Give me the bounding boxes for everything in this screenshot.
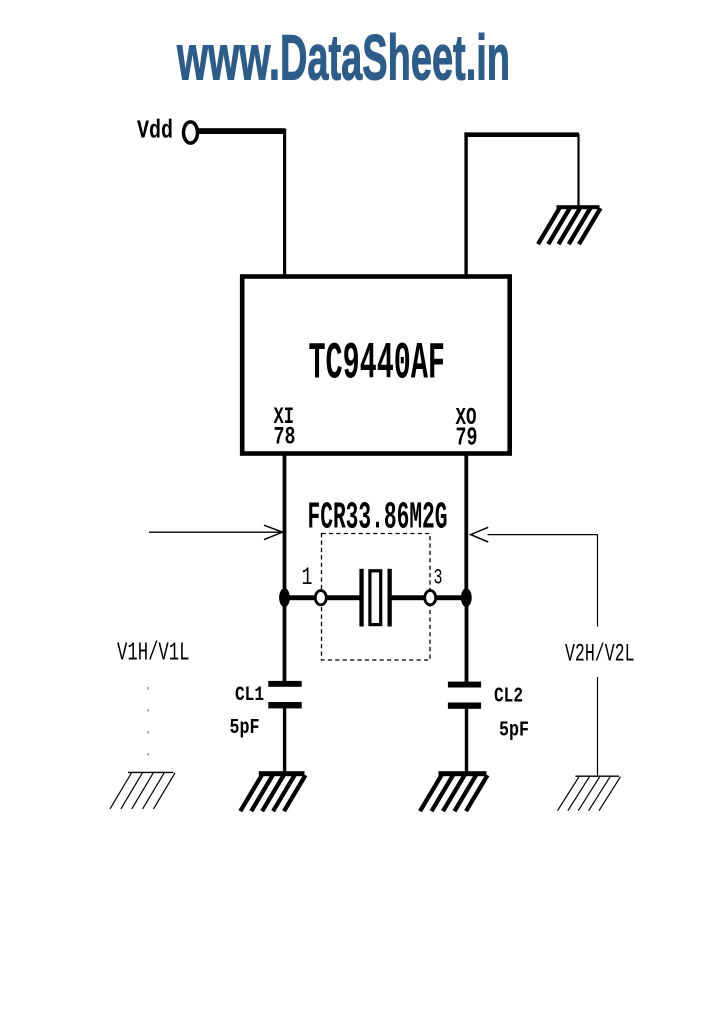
ground (top right) bbox=[557, 205, 600, 209]
wire V2 probe vertical upper bbox=[597, 535, 599, 627]
svg-text:79: 79 bbox=[456, 422, 478, 452]
svg-text:1: 1 bbox=[302, 564, 313, 592]
svg-text:CL1: CL1 bbox=[235, 683, 264, 706]
wire XO pin 79 down to node B bbox=[464, 454, 468, 599]
watermark logo www.DataSheet.in bbox=[176, 21, 510, 93]
svg-text:CL2: CL2 bbox=[494, 684, 523, 709]
svg-text:78: 78 bbox=[274, 423, 296, 452]
wire node A down to CL1 bbox=[283, 598, 287, 682]
wire crystal pin 3 to node B bbox=[436, 595, 467, 600]
capacitor CL1 top plate bbox=[268, 681, 301, 687]
svg-text:5pF: 5pF bbox=[499, 717, 529, 742]
ground (V2 probe reference, thin) bbox=[576, 775, 620, 777]
wire Vdd horizontal to top-left corner bbox=[198, 128, 286, 134]
wire CL1 to ground bbox=[283, 708, 286, 772]
crystal pin 3 terminal circle bbox=[425, 591, 436, 605]
crystal pin 1 terminal circle bbox=[315, 591, 326, 605]
wire V1 probe faint dotted bbox=[147, 687, 149, 756]
svg-text:Vdd: Vdd bbox=[137, 116, 173, 145]
wire vertical from IC top pin up (GND pin) bbox=[464, 132, 467, 277]
ground (V1 probe reference, thin) bbox=[128, 771, 174, 773]
arrow V2 probe pointing at XO wire bbox=[471, 527, 489, 542]
ground (CL1) bbox=[259, 771, 305, 776]
crystal module dashed outline bbox=[322, 534, 431, 661]
crystal X1 body box bbox=[370, 571, 381, 625]
svg-text:5pF: 5pF bbox=[230, 715, 260, 740]
wire CL2 to ground bbox=[465, 709, 468, 772]
capacitor CL2 top plate bbox=[448, 682, 481, 688]
svg-text:TC9440AF: TC9440AF bbox=[309, 336, 446, 393]
ground (CL2) bbox=[439, 771, 487, 776]
wire vertical Vdd down to IC top (VDD pin) bbox=[283, 129, 286, 278]
node A junction dot (XI net) bbox=[279, 588, 290, 607]
svg-text:V1H/V1L: V1H/V1L bbox=[117, 638, 190, 667]
capacitor CL2 bottom plate bbox=[448, 703, 481, 709]
crystal X1 right plate bbox=[388, 569, 392, 627]
svg-text:DataSheet.in: DataSheet.in bbox=[280, 21, 510, 93]
wire horizontal top-right bbox=[464, 132, 579, 137]
IC U1 TC9440AF box bbox=[242, 277, 510, 454]
node B junction dot (XO net) bbox=[461, 588, 472, 607]
wire stub down to ground bbox=[577, 134, 579, 206]
svg-text:www.: www. bbox=[176, 21, 280, 93]
svg-text:3: 3 bbox=[434, 565, 443, 590]
wire V2 probe vertical lower bbox=[597, 677, 599, 776]
arrow V1 probe pointing at XI wire bbox=[149, 531, 281, 533]
wire crystal pin 1 to left plate bbox=[326, 595, 360, 600]
crystal X1 left plate bbox=[359, 569, 363, 627]
capacitor CL1 bottom plate bbox=[268, 702, 301, 708]
terminal Vdd (open circle) bbox=[184, 122, 198, 143]
wire XI pin 78 down to node A bbox=[283, 454, 287, 599]
wire crystal right plate to pin 3 bbox=[392, 595, 425, 600]
wire node B down to CL2 bbox=[465, 598, 469, 683]
svg-text:V2H/V2L: V2H/V2L bbox=[565, 640, 635, 668]
wire node A to crystal pin 1 bbox=[285, 595, 316, 600]
